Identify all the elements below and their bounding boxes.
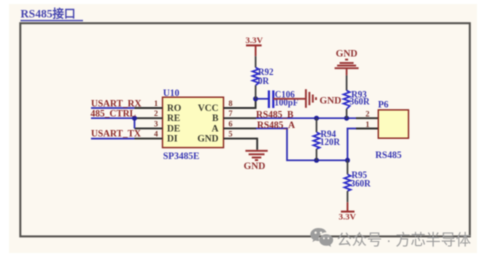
svg-text:A: A	[212, 124, 219, 134]
svg-text:DI: DI	[167, 135, 178, 145]
svg-text:P6: P6	[378, 101, 389, 111]
svg-text:0R: 0R	[258, 76, 270, 86]
svg-text:6: 6	[229, 119, 233, 128]
svg-text:1: 1	[154, 99, 158, 108]
svg-text:RE: RE	[167, 114, 180, 124]
svg-text:1: 1	[366, 120, 370, 129]
svg-text:3: 3	[154, 119, 158, 128]
svg-text:RO: RO	[167, 104, 181, 114]
svg-text:7: 7	[229, 109, 233, 118]
svg-text:VCC: VCC	[198, 104, 219, 114]
svg-text:2: 2	[154, 109, 158, 118]
svg-text:USART_TX: USART_TX	[91, 130, 141, 140]
svg-text:3.3V: 3.3V	[246, 35, 264, 45]
svg-text:360R: 360R	[350, 97, 371, 107]
svg-text:3.3V: 3.3V	[339, 212, 357, 222]
svg-text:8: 8	[229, 99, 233, 108]
svg-text:4: 4	[154, 130, 158, 139]
svg-text:RS485_A: RS485_A	[257, 121, 295, 131]
svg-text:GND: GND	[244, 161, 266, 172]
svg-text:GND: GND	[197, 135, 218, 145]
svg-text:GND: GND	[336, 48, 358, 59]
svg-text:120R: 120R	[320, 137, 341, 147]
svg-text:485_CTRL: 485_CTRL	[91, 110, 136, 120]
svg-text:5: 5	[229, 130, 233, 139]
svg-text:2: 2	[366, 109, 370, 118]
svg-text:U10: U10	[163, 89, 180, 99]
svg-text:SP3485E: SP3485E	[163, 152, 199, 162]
svg-text:360R: 360R	[351, 178, 372, 188]
svg-text:RS485: RS485	[375, 151, 402, 161]
svg-text:RS485接口: RS485接口	[21, 7, 76, 21]
svg-text:GND: GND	[320, 95, 342, 106]
svg-text:RS485_B: RS485_B	[256, 111, 294, 121]
svg-text:USART_RX: USART_RX	[91, 99, 141, 109]
svg-text:DE: DE	[167, 124, 180, 134]
svg-text:B: B	[212, 114, 219, 124]
svg-text:公众号 · 方芯半导体: 公众号 · 方芯半导体	[337, 232, 471, 249]
